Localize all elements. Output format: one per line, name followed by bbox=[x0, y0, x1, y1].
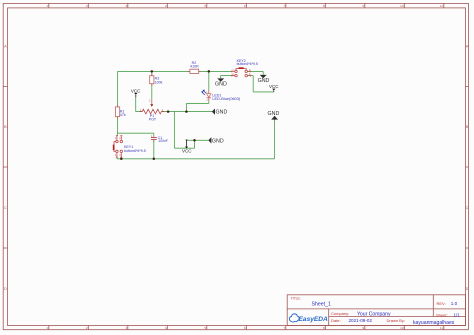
svg-text:button6*6*9.5: button6*6*9.5 bbox=[237, 62, 258, 66]
potentiometer P1 wiper pin bbox=[151, 99, 153, 104]
svg-text:B: B bbox=[466, 125, 469, 129]
svg-text:VCC: VCC bbox=[131, 88, 141, 93]
svg-text:1.0: 1.0 bbox=[451, 301, 458, 306]
svg-text:Drawn By:: Drawn By: bbox=[387, 318, 405, 323]
actuator bridge bbox=[114, 142, 116, 152]
pins 1,2 left stubs bbox=[232, 70, 235, 76]
wire LED branch bbox=[186, 71, 208, 111]
svg-text:TITLE:: TITLE: bbox=[291, 297, 301, 301]
svg-text:Your Company: Your Company bbox=[357, 311, 391, 317]
wire top rail bbox=[118, 70, 232, 72]
pins 2,4 bottom stubs bbox=[116, 153, 122, 158]
EasyEDA logo bbox=[289, 314, 328, 323]
LED LED1 bbox=[201, 90, 241, 102]
svg-text:LED-Blue(0603): LED-Blue(0603) bbox=[212, 96, 241, 101]
zone letters left bbox=[4, 45, 7, 292]
capacitor C1 bbox=[151, 134, 168, 143]
pins 1,3 top stubs bbox=[116, 136, 122, 141]
zone letters right bbox=[466, 45, 469, 292]
potentiometer P1 body bbox=[140, 108, 165, 122]
net flag GND (below KEY2 pin2, arrow down) bbox=[215, 78, 227, 87]
pushbutton KEY1 bbox=[113, 136, 146, 158]
svg-text:VCC: VCC bbox=[269, 84, 279, 89]
resistor R2 bbox=[188, 61, 201, 73]
wire bottom GND rail bbox=[117, 120, 275, 158]
net flag VCC (left, feeds POT) bbox=[131, 88, 141, 97]
svg-text:D: D bbox=[4, 287, 7, 291]
svg-text:Company:: Company: bbox=[331, 311, 349, 316]
net flag GND (POT row, arrow left) bbox=[212, 109, 228, 116]
junction node lower GND row bbox=[193, 139, 196, 142]
svg-text:POT: POT bbox=[149, 117, 157, 121]
side zone ticks bbox=[3, 87, 7, 249]
junction node at LED column top bbox=[208, 70, 211, 73]
svg-text:button6*6*9.5: button6*6*9.5 bbox=[124, 149, 146, 153]
pins 3,4 right stubs bbox=[247, 70, 250, 76]
svg-text:A: A bbox=[466, 45, 469, 49]
svg-text:kayuanmagalhaes: kayuanmagalhaes bbox=[413, 320, 455, 326]
junction node LED branch bottom bbox=[185, 110, 188, 113]
svg-text:GND: GND bbox=[216, 110, 228, 116]
resistor R1 bbox=[116, 105, 126, 119]
svg-text:C: C bbox=[4, 206, 7, 210]
svg-text:11: 11 bbox=[440, 326, 443, 330]
junction node C1 bottom bbox=[153, 158, 156, 161]
svg-text:1/1: 1/1 bbox=[454, 312, 461, 317]
svg-text:EasyEDA: EasyEDA bbox=[299, 316, 329, 323]
svg-text:C: C bbox=[466, 206, 469, 210]
wire KEY2 right pin4 to VCC bbox=[248, 76, 274, 92]
svg-text:Date:: Date: bbox=[331, 318, 341, 323]
svg-text:Sheet:: Sheet: bbox=[436, 312, 448, 317]
svg-text:GND: GND bbox=[215, 82, 227, 88]
contact circles bbox=[116, 140, 118, 142]
zone numbers top bbox=[46, 4, 443, 8]
svg-text:B: B bbox=[4, 125, 7, 129]
LED1 emission arrows bbox=[202, 90, 206, 95]
net flag GND (right of KEY2, arrow down) bbox=[258, 75, 270, 84]
svg-text:2021-09-02: 2021-09-02 bbox=[349, 318, 373, 323]
svg-text:GND: GND bbox=[258, 78, 270, 84]
svg-text:11: 11 bbox=[440, 4, 443, 8]
svg-text:GND: GND bbox=[268, 111, 280, 117]
wire KEY1 to C1 loop bbox=[118, 133, 154, 159]
top/bottom zone ticks bbox=[49, 3, 444, 8]
potentiometer P1 wiper arrow bbox=[150, 104, 153, 107]
svg-text:VCC: VCC bbox=[182, 148, 192, 153]
wire KEY2 left pin2 to GND bbox=[221, 76, 235, 79]
wire POT row bbox=[136, 111, 212, 113]
wire left column (VCC top feed through R1) bbox=[117, 71, 119, 135]
svg-text:47k: 47k bbox=[120, 113, 126, 117]
wire R3 to POT wiper bbox=[151, 71, 153, 99]
net flag GND (far right, arrow up) bbox=[268, 111, 280, 120]
svg-text:GND: GND bbox=[212, 138, 224, 144]
junction node POT right bbox=[167, 110, 170, 113]
wire KEY2 right pin3 to GND bbox=[248, 71, 264, 74]
svg-text:410R: 410R bbox=[190, 65, 199, 69]
zone numbers bottom bbox=[46, 326, 443, 330]
svg-text:100nF: 100nF bbox=[158, 139, 168, 143]
svg-text:A: A bbox=[4, 45, 7, 49]
svg-text:D: D bbox=[466, 287, 469, 291]
wire KEY1 bottom pins to rail bbox=[117, 157, 121, 159]
wire branch down to lower GND row bbox=[174, 112, 208, 149]
svg-text:REV:: REV: bbox=[437, 301, 446, 306]
actuator bridge bbox=[236, 69, 246, 71]
svg-text:100k: 100k bbox=[155, 80, 163, 84]
svg-text:Sheet_1: Sheet_1 bbox=[312, 301, 331, 307]
svg-text:10: 10 bbox=[400, 326, 404, 330]
resistor R3 bbox=[150, 74, 163, 86]
wire VCC-left stem to POT row bbox=[135, 97, 137, 111]
pushbutton KEY2 bbox=[232, 59, 258, 77]
junction node KEY1 bottom bbox=[120, 158, 123, 161]
junction node at R3 top bbox=[151, 70, 154, 73]
contact circles bbox=[235, 70, 237, 72]
net flag VCC (middle bottom) bbox=[182, 140, 192, 153]
svg-text:10: 10 bbox=[400, 4, 404, 8]
net flag VCC (right of KEY2) bbox=[269, 84, 279, 92]
net flag GND (lower row, arrow left) bbox=[208, 137, 224, 144]
